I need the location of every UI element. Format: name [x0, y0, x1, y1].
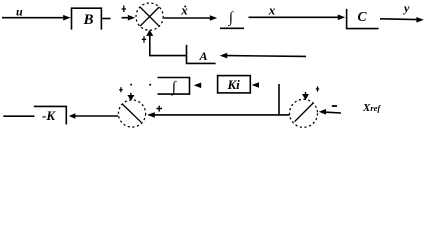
block -K (top + right edges) — [34, 106, 67, 124]
summing junction 3 (right, dashed circle) — [290, 99, 318, 127]
integrator left dot — [149, 84, 151, 86]
svg-text:ẋ: ẋ — [180, 3, 188, 18]
integrator underline — [220, 27, 244, 29]
block C (left + bottom edges) — [347, 9, 379, 29]
wire junction1 to integrator — [164, 17, 211, 19]
svg-text:B: B — [83, 12, 94, 28]
summing junction 1 (dashed circle) — [136, 3, 163, 30]
arrowhead down into junction 2 — [128, 95, 133, 100]
wire -K output — [3, 115, 34, 117]
wire A feedback from tap — [227, 55, 306, 58]
arrowhead up into junction 1 — [147, 31, 153, 36]
wire Xref input — [326, 111, 341, 114]
diagonal inside junction 2 — [122, 104, 141, 122]
svg-text:A: A — [199, 49, 208, 63]
X inside junction 1 — [140, 7, 159, 26]
wire into summing junction 1 — [122, 17, 129, 19]
plus sign (top input of junction 2) — [119, 87, 122, 92]
minus sign (Xref input) — [332, 105, 337, 107]
svg-text:∫: ∫ — [228, 10, 235, 26]
svg-text:-K: -K — [42, 108, 56, 123]
arrowhead into summing junction 1 — [128, 15, 135, 21]
wire B output stub — [102, 18, 110, 20]
wire u input — [2, 17, 64, 19]
svg-text:∫: ∫ — [171, 79, 178, 95]
svg-text:Xref: Xref — [362, 102, 381, 114]
wire integrator to C — [249, 16, 339, 18]
arrowhead into junction 3 — [319, 109, 326, 115]
arrowhead into left junction — [147, 112, 154, 118]
svg-text:x: x — [268, 3, 276, 18]
arrowhead into -K — [69, 113, 76, 118]
block B (open bottom box) — [72, 8, 102, 29]
diagonal inside junction 3 — [295, 103, 314, 122]
integrator block (bottom, open left box) — [158, 78, 190, 95]
svg-text:C: C — [358, 9, 368, 24]
arrowhead y output — [416, 17, 423, 23]
block A (left + bottom edges) — [187, 45, 216, 64]
arrowhead into integrator block — [194, 83, 201, 89]
wire right junction to left junction — [149, 114, 290, 116]
arrowhead down into junction 3 — [303, 95, 308, 100]
dot above junction 2 — [130, 84, 132, 86]
plus sign (right input of left junction) — [156, 106, 162, 112]
arrowhead into Ki — [252, 82, 259, 88]
plus sign (A input at junction 1 bottom) — [142, 36, 146, 42]
svg-text:y: y — [402, 1, 410, 15]
svg-text:u: u — [16, 5, 23, 19]
arrowhead into integrator — [210, 15, 217, 21]
arrowhead into A — [220, 53, 227, 59]
svg-text:Ki: Ki — [227, 77, 241, 92]
wire branch vertical to Ki path — [278, 84, 280, 115]
block Ki — [218, 76, 251, 93]
wire C to y output — [380, 18, 418, 21]
plus sign (B input, top-left of junction 1) — [122, 6, 126, 13]
summing junction 2 (left, dashed circle) — [118, 100, 145, 127]
arrowhead into C — [338, 15, 345, 21]
wire junction 2 to -K — [75, 115, 119, 117]
plus sign (top input of junction 3) — [316, 86, 319, 91]
wire A output to corner — [150, 34, 187, 56]
arrowhead into B — [63, 15, 70, 21]
